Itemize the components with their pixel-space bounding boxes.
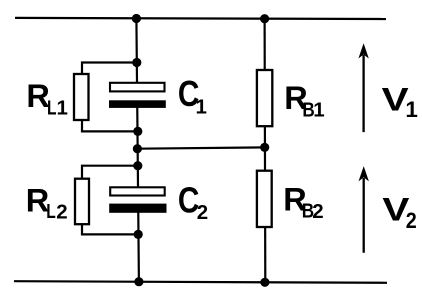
label RB1 (284, 80, 324, 121)
capacitor C2 bottom plate (109, 204, 166, 213)
junction node C (133, 161, 142, 170)
label C2 (178, 180, 208, 224)
resistor RL1 (74, 74, 89, 120)
svg-text:1: 1 (405, 97, 418, 122)
resistor RB1 (257, 70, 272, 126)
svg-text:2: 2 (312, 200, 323, 223)
resistor RL2 (75, 179, 89, 225)
capacitor C1 bottom plate (109, 100, 166, 108)
capacitor C1 top plate (110, 83, 165, 92)
junction node B (133, 127, 142, 136)
label V2 (382, 191, 416, 233)
junction dot top-right rail (260, 14, 269, 23)
junction dot bottom-right rail (260, 278, 269, 287)
wire: left main vertical upper segment (top rail to C1 top plate) (135, 19, 138, 93)
wire: left main vertical lower segment (C2 bottom plate to bottom rail) (137, 205, 140, 282)
svg-text:2: 2 (197, 201, 208, 224)
junction mid-left (133, 144, 142, 153)
wire: RL1 loop (82, 63, 138, 132)
label C1 (178, 73, 207, 119)
resistor RB2 (257, 171, 272, 227)
wire: middle horizontal connecting branch (137, 147, 264, 148)
svg-text:2: 2 (56, 200, 67, 223)
svg-text:1: 1 (196, 96, 207, 119)
wire: RL2 loop (82, 166, 138, 235)
wire: bottom rail (14, 281, 387, 283)
junction node D (134, 230, 143, 239)
arrow V2 (359, 166, 369, 253)
svg-text:2: 2 (406, 208, 417, 233)
svg-text:1: 1 (313, 99, 324, 122)
wire: top rail (15, 18, 386, 19)
svg-text:L: L (46, 200, 56, 223)
wire: right branch vertical (264, 19, 267, 283)
wire: left main vertical middle segment (C1 bottom plate to C2 top plate) (136, 101, 139, 196)
svg-text:L: L (47, 96, 57, 119)
junction dot top-left rail (132, 14, 141, 23)
junction node A (132, 58, 141, 67)
label RL1 (26, 78, 68, 119)
capacitor C2 top plate (110, 187, 165, 195)
svg-text:1: 1 (57, 96, 68, 119)
arrow V1 (358, 43, 368, 132)
label RB2 (283, 182, 323, 223)
label V1 (382, 81, 418, 122)
junction dot bottom-left rail (134, 277, 143, 286)
label RL2 (26, 183, 68, 224)
junction mid-right (260, 143, 269, 152)
